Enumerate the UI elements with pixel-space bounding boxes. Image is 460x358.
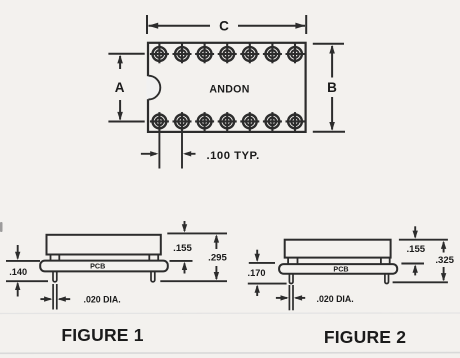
svg-text:.100 TYP.: .100 TYP.	[207, 150, 260, 162]
figure 2 dim .325 extension bottom	[393, 281, 448, 283]
socket contact pin 13 (top view)	[263, 112, 282, 131]
figure 2 left standoff	[288, 258, 297, 265]
ANDON brand label	[209, 84, 249, 96]
figure 2 dim .170 extension upper	[249, 262, 275, 264]
figure 2 left pin	[289, 274, 293, 284]
figure 1 left pin	[53, 271, 57, 281]
figure 1 right pin	[151, 271, 155, 281]
socket contact pin 6 (top view)	[263, 43, 282, 63]
figure 1 pin diameter extension lines	[53, 284, 57, 310]
socket contact pin 4 (top view)	[218, 43, 237, 63]
dimension B extension line lower	[313, 131, 345, 133]
figure 1 dim .295 arrows and label	[208, 234, 227, 280]
figure 2 dim .155 arrows and label	[406, 226, 425, 275]
socket contact pin 10 (top view)	[195, 112, 214, 131]
figure 1 dim .155 arrows and label	[173, 221, 192, 274]
faint scan streak mid-lower	[0, 312, 460, 315]
dimension C arrow line with label C	[148, 18, 305, 33]
svg-text:.140: .140	[9, 267, 27, 277]
dimension C extension tick left	[146, 15, 148, 34]
figure 1 dim .140 extension upper	[6, 260, 40, 262]
socket contact pin 3 (top view)	[195, 43, 214, 63]
figure 1 dim .295 extension bottom	[160, 280, 227, 282]
faint scan streak bottom	[0, 352, 460, 355]
dimension B extension line upper	[313, 43, 344, 45]
svg-text:B: B	[327, 80, 337, 95]
figure 1 dim .140 arrows and label	[9, 245, 27, 297]
figure 1 PCB with label	[40, 261, 168, 272]
dimension A arrow line with label A	[115, 55, 125, 121]
dimension B arrow line with label B	[327, 45, 337, 131]
figure 1 dim .155 extension lower	[170, 260, 193, 262]
figure 1 left standoff	[51, 255, 60, 261]
pin pitch arrows with label .100 TYP.	[141, 150, 260, 162]
svg-text:.325: .325	[435, 255, 454, 266]
svg-text:.170: .170	[248, 268, 266, 278]
svg-text:.155: .155	[173, 243, 192, 254]
socket contact pin 8 (top view)	[150, 112, 169, 131]
pin pitch extension line 2	[181, 133, 183, 169]
figure 1 dim .155 extension upper	[167, 232, 227, 234]
dimension A extension line lower	[108, 121, 144, 123]
figure 1 dim .140 extension lower	[6, 280, 48, 282]
figure 2 pin diameter extension lines	[289, 285, 293, 310]
svg-text:.020 DIA.: .020 DIA.	[84, 295, 121, 305]
svg-text:C: C	[219, 18, 229, 33]
svg-text:PCB: PCB	[90, 261, 105, 270]
socket contact pin 9 (top view)	[173, 112, 192, 131]
socket contact pin 1 (top view)	[150, 43, 169, 63]
figure 2 dim .020 DIA arrows and label	[276, 294, 354, 304]
pin-1 index notch	[147, 76, 161, 100]
scan artifact mark at left edge	[0, 222, 3, 232]
figure 1 dim .020 DIA arrows and label	[40, 295, 120, 305]
socket contact pin 7 (top view)	[286, 43, 305, 63]
socket contact pin 5 (top view)	[240, 43, 259, 63]
figure 2 socket body (side view)	[285, 240, 391, 258]
svg-text:.155: .155	[406, 244, 425, 255]
svg-text:.020 DIA.: .020 DIA.	[317, 294, 354, 304]
pin pitch extension line 1	[158, 133, 160, 169]
svg-text:FIGURE 2: FIGURE 2	[324, 327, 406, 347]
figure 2 caption	[324, 327, 406, 347]
socket contact pin 11 (top view)	[218, 112, 237, 131]
figure 2 dim .170 extension lower	[248, 283, 287, 285]
figure 2 dim .170 arrows and label	[248, 250, 266, 296]
figure 2 right pin	[385, 274, 389, 284]
svg-text:.295: .295	[208, 253, 227, 264]
svg-text:ANDON: ANDON	[209, 84, 249, 96]
svg-text:PCB: PCB	[333, 265, 348, 274]
socket contact pin 14 (top view)	[286, 112, 305, 131]
svg-text:A: A	[115, 80, 125, 95]
figure 2 right standoff	[381, 258, 390, 265]
figure 1 right standoff	[149, 255, 158, 261]
figure 2 dim .155 extension upper	[399, 239, 448, 241]
svg-text:FIGURE 1: FIGURE 1	[61, 325, 143, 345]
figure 1 socket body (side view)	[47, 235, 161, 255]
figure 2 PCB with label	[279, 264, 397, 274]
dimension C extension tick right	[305, 15, 307, 34]
figure 2 dim .325 arrows and label	[435, 241, 454, 282]
dimension A extension line upper	[108, 53, 144, 55]
socket contact pin 2 (top view)	[173, 43, 192, 63]
IC socket body outline (top view)	[148, 43, 306, 132]
figure 1 caption	[61, 325, 143, 345]
figure 2 dim .155 extension lower	[401, 263, 424, 265]
socket contact pin 12 (top view)	[240, 112, 259, 131]
